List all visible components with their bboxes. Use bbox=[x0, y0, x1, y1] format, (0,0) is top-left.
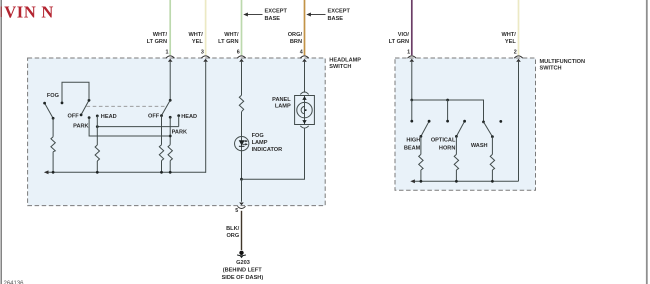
svg-text:G203: G203 bbox=[236, 260, 250, 266]
svg-text:SWITCH: SWITCH bbox=[329, 64, 351, 70]
panel lamp bbox=[295, 96, 315, 125]
junction fog/rail bbox=[52, 171, 55, 174]
junction head/rail bbox=[96, 171, 99, 174]
svg-text:(BEHIND LEFT: (BEHIND LEFT bbox=[223, 268, 262, 274]
wire HEAD group2 down bbox=[178, 116, 180, 127]
label VIO/LT GRN bbox=[389, 32, 410, 45]
label FOG LAMP INDICATOR bbox=[252, 133, 283, 153]
svg-text:WHT/: WHT/ bbox=[224, 32, 239, 38]
wire resistor to rail bbox=[96, 161, 98, 172]
wire PARK group1 down and link bbox=[89, 118, 170, 136]
node HEAD contact group2 bbox=[177, 114, 180, 117]
pin 3 connector (headlamp switch) bbox=[201, 49, 210, 61]
svg-text:ORG: ORG bbox=[226, 233, 239, 239]
svg-text:4: 4 bbox=[300, 49, 303, 55]
label HEADLAMP SWITCH bbox=[329, 57, 361, 70]
node FOG contact bbox=[43, 102, 46, 105]
node optical horn pivot bbox=[455, 135, 458, 138]
svg-text:PARK: PARK bbox=[73, 124, 88, 130]
svg-text:3: 3 bbox=[201, 49, 204, 55]
wire WHT/LT GRN to headlamp switch pin 1 bbox=[169, 0, 171, 55]
pin 1 connector (headlamp switch) bbox=[166, 49, 175, 61]
label ORG/BRN bbox=[288, 32, 303, 45]
svg-text:VIO/: VIO/ bbox=[398, 32, 410, 38]
svg-text:6: 6 bbox=[237, 49, 240, 55]
switch blade group2 (OFF position) bbox=[162, 100, 171, 115]
wire resistor to indicator and down bbox=[241, 112, 243, 180]
wire bottom rail (multifunction switch) bbox=[413, 180, 519, 182]
svg-text:FOG: FOG bbox=[252, 133, 264, 139]
svg-text:5: 5 bbox=[235, 208, 238, 214]
svg-text:WHT/: WHT/ bbox=[153, 32, 168, 38]
wire high beam pivot down bbox=[420, 136, 422, 154]
junction park/rail bbox=[169, 171, 172, 174]
svg-text:BRN: BRN bbox=[290, 39, 302, 45]
pin 6 connector (headlamp switch) bbox=[237, 49, 246, 61]
wire WHT/YEL to headlamp switch pin 3 bbox=[205, 0, 207, 55]
node bracket contact bbox=[61, 102, 64, 105]
svg-text:SWITCH: SWITCH bbox=[540, 65, 562, 71]
resistor (high beam) bbox=[419, 154, 423, 170]
svg-text:BASE: BASE bbox=[265, 16, 281, 22]
svg-text:MULTIFUNCTION: MULTIFUNCTION bbox=[540, 59, 586, 65]
svg-text:YEL: YEL bbox=[505, 39, 516, 45]
svg-text:WASH: WASH bbox=[471, 143, 488, 149]
svg-text:LT GRN: LT GRN bbox=[147, 39, 167, 45]
resistor (PARK branch) bbox=[168, 145, 172, 161]
switch blade HIGH BEAM bbox=[421, 121, 429, 136]
svg-text:HEAD: HEAD bbox=[181, 114, 197, 120]
svg-text:BASE: BASE bbox=[328, 16, 344, 22]
svg-text:ORG/: ORG/ bbox=[288, 32, 303, 38]
wire resistor to rail bbox=[420, 170, 422, 181]
ground G203 bbox=[237, 251, 246, 259]
wire feed rail bbox=[412, 100, 484, 122]
svg-text:LAMP: LAMP bbox=[275, 104, 291, 110]
node OFF contact group1 bbox=[80, 114, 83, 117]
wire high beam stub bbox=[411, 100, 413, 121]
node PARK contact group1 bbox=[88, 116, 91, 119]
wire pin1 down bbox=[411, 62, 413, 100]
label G203 (BEHIND LEFT SIDE OF DASH) bbox=[222, 260, 264, 281]
except-base arrow at pin 6 wire bbox=[243, 9, 287, 23]
svg-text:HORN: HORN bbox=[439, 146, 455, 152]
switch blade WASH bbox=[484, 122, 493, 137]
resistor (optical horn) bbox=[454, 154, 458, 170]
svg-text:2: 2 bbox=[514, 49, 517, 55]
wire VIO/LT GRN to multifunction switch pin 1 bbox=[411, 0, 413, 55]
node high beam pivot bbox=[420, 135, 423, 138]
wire junction to pin5 bbox=[241, 179, 243, 202]
wire panel lamp return bbox=[242, 129, 305, 180]
rail continuation arrow bbox=[44, 170, 49, 174]
node high beam blade tip bbox=[428, 120, 431, 123]
junction optical horn/rail bbox=[455, 180, 458, 183]
svg-text:HEADLAMP: HEADLAMP bbox=[329, 57, 361, 63]
node PARK junction bbox=[169, 135, 172, 138]
wire BLK/ORG to ground bbox=[241, 211, 243, 250]
panel lamp connector (bottom) bbox=[300, 126, 308, 128]
multifunction switch (dashed box) bbox=[395, 58, 536, 190]
wire resistor to rail bbox=[491, 170, 493, 181]
wire pin4 to panel lamp bbox=[304, 62, 306, 93]
wire HEAD link bbox=[97, 126, 178, 128]
svg-text:LT GRN: LT GRN bbox=[218, 39, 238, 45]
svg-text:INDICATOR: INDICATOR bbox=[252, 147, 283, 153]
wire optical horn pivot down bbox=[455, 136, 457, 154]
svg-text:OFF: OFF bbox=[148, 114, 160, 120]
wire WHT/LT GRN to headlamp switch pin 6 bbox=[241, 0, 243, 55]
mechanical linkage (dashed) bbox=[87, 105, 165, 107]
svg-text:WHT/: WHT/ bbox=[502, 32, 517, 38]
svg-text:OPTICAL: OPTICAL bbox=[431, 138, 456, 144]
svg-text:1: 1 bbox=[166, 49, 169, 55]
wire ORG/BRN to headlamp switch pin 4 bbox=[304, 0, 306, 55]
wire pin6 down bbox=[241, 62, 243, 96]
junction off2/rail bbox=[160, 171, 163, 174]
fog lamp indicator (LED) bbox=[235, 136, 249, 150]
wire PARK group2 down bbox=[169, 117, 171, 145]
wire resistor to rail bbox=[169, 161, 171, 173]
node pivot group1 bbox=[88, 99, 91, 102]
svg-text:PANEL: PANEL bbox=[272, 97, 291, 103]
resistor (HEAD branch) bbox=[95, 145, 99, 161]
svg-text:EXCEPT: EXCEPT bbox=[265, 9, 288, 15]
resistor (FOG branch) bbox=[51, 137, 55, 152]
wire pin2 to rail bbox=[518, 62, 520, 182]
wire OFF group2 down bbox=[161, 116, 163, 145]
wire bracket linking poles bbox=[62, 82, 89, 103]
node HEAD contact group1 bbox=[96, 115, 99, 118]
wire pin1 to rotary pivot bbox=[169, 62, 171, 101]
node feed rail junction bbox=[446, 99, 449, 102]
switch blade FOG bbox=[45, 103, 54, 118]
rail continuation arrow bbox=[410, 179, 415, 183]
wire HEAD group1 down bbox=[96, 116, 98, 145]
svg-text:VIN N: VIN N bbox=[4, 3, 54, 22]
node wash fixed contact bbox=[482, 121, 485, 124]
label WHT/LT GRN bbox=[218, 32, 239, 45]
svg-text:OFF: OFF bbox=[68, 114, 80, 120]
label HIGH BEAM bbox=[404, 138, 421, 152]
junction pin6/panel lamp return bbox=[240, 178, 243, 181]
pin 5 connector (headlamp switch, bottom) bbox=[235, 203, 245, 215]
pin 1 connector (multifunction switch) bbox=[407, 49, 416, 61]
label OPTICAL HORN bbox=[431, 138, 456, 152]
node high beam fixed contact bbox=[410, 120, 413, 123]
node pivot group2 bbox=[169, 99, 172, 102]
svg-text:PARK: PARK bbox=[172, 130, 187, 136]
label MULTIFUNCTION SWITCH bbox=[540, 59, 586, 72]
node FOG pivot bbox=[52, 117, 55, 120]
label WHT/YEL bbox=[189, 32, 204, 45]
label PANEL LAMP bbox=[272, 97, 291, 110]
node wash blade tip (open contact) bbox=[499, 120, 502, 123]
svg-text:1: 1 bbox=[407, 49, 410, 55]
wire wash pivot down bbox=[491, 137, 493, 155]
wire optical horn stub bbox=[447, 100, 449, 121]
node PARK contact group2 bbox=[169, 116, 172, 119]
svg-text:WHT/: WHT/ bbox=[189, 32, 204, 38]
node OFF contact group2 bbox=[160, 114, 163, 117]
label WHT/YEL bbox=[502, 32, 517, 45]
svg-text:EXCEPT: EXCEPT bbox=[328, 9, 351, 15]
svg-text:HEAD: HEAD bbox=[101, 114, 117, 120]
resistor (wash) bbox=[490, 154, 494, 170]
svg-text:YEL: YEL bbox=[192, 39, 203, 45]
svg-text:BEAM: BEAM bbox=[404, 146, 421, 152]
svg-text:FOG: FOG bbox=[47, 93, 59, 99]
wire resistor to rail bbox=[161, 161, 163, 173]
node wash pivot bbox=[491, 135, 494, 138]
except-base arrow at pin 4 wire bbox=[306, 9, 350, 23]
svg-text:BLK/: BLK/ bbox=[226, 226, 239, 232]
panel lamp connector (top) bbox=[300, 92, 308, 94]
svg-text:LT GRN: LT GRN bbox=[389, 39, 409, 45]
node HEAD link junction bbox=[96, 125, 99, 128]
wire pin3 to rail bbox=[205, 62, 207, 173]
switch blade group1 (OFF position) bbox=[81, 100, 89, 115]
svg-text:HIGH: HIGH bbox=[406, 138, 420, 144]
wire resistor to rail bbox=[455, 170, 457, 181]
node optical horn blade tip bbox=[463, 120, 466, 123]
wire FOG down bbox=[52, 118, 54, 137]
junction wash/rail bbox=[491, 180, 494, 183]
resistor (fog indicator feed) bbox=[239, 95, 243, 111]
label WHT/LT GRN bbox=[147, 32, 168, 45]
pin 2 connector (multifunction switch) bbox=[514, 49, 523, 61]
wire WHT/YEL to multifunction switch pin 2 bbox=[518, 0, 520, 55]
junction high beam/rail bbox=[420, 180, 423, 183]
headlamp switch (dashed box) bbox=[28, 58, 326, 206]
switch blade OPTICAL HORN bbox=[456, 121, 464, 136]
node optical horn fixed contact bbox=[446, 120, 449, 123]
label BLK/ORG bbox=[226, 226, 239, 239]
node feed junction bbox=[410, 99, 413, 102]
svg-text:LAMP: LAMP bbox=[252, 140, 268, 146]
svg-text:SIDE OF DASH): SIDE OF DASH) bbox=[222, 275, 264, 281]
wire bottom rail (headlamp switch) bbox=[47, 171, 206, 173]
pin 4 connector (headlamp switch) bbox=[300, 49, 309, 61]
resistor (group2 OFF branch) bbox=[159, 145, 163, 161]
wire resistor to rail bbox=[52, 152, 54, 173]
